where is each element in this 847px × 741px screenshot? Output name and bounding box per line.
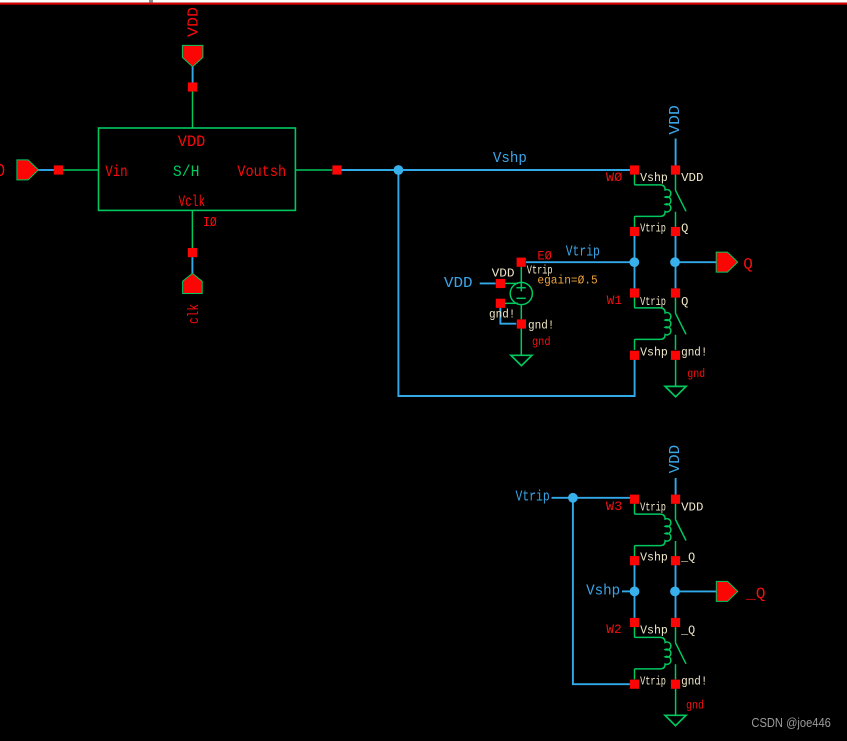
svg-text:Q: Q: [681, 221, 688, 235]
svg-text:Vshp: Vshp: [493, 150, 527, 167]
wire (blue, W3 _Q pin to W2 _Q pin): [675, 565, 677, 618]
pin square under VDD symbol: [188, 82, 197, 91]
wire (blue, Vtrip label to W3 pin): [552, 497, 631, 499]
wire (green, W2 gnd! pin to ground): [675, 689, 677, 715]
W0 pins: [630, 165, 639, 174]
wire (blue stub to clk symbol): [191, 257, 193, 273]
svg-text:gnd!: gnd!: [489, 308, 515, 322]
junction node _Q: [670, 587, 680, 597]
svg-text:VDD: VDD: [444, 275, 473, 292]
wire (blue stub, Vshp label to junction): [622, 590, 630, 592]
svg-text:IØ: IØ: [203, 216, 217, 231]
partial net label at left edge: [0, 165, 4, 176]
wire (green, E0 top pin into circle): [520, 267, 522, 292]
svg-text:_Q: _Q: [680, 624, 695, 638]
svg-text:_Q: _Q: [680, 551, 695, 565]
svg-text:VDD: VDD: [681, 500, 703, 514]
svg-text:gnd: gnd: [532, 335, 551, 349]
top window border band: [0, 0, 847, 3]
svg-text:_Q: _Q: [745, 585, 766, 603]
svg-text:VDD: VDD: [667, 445, 684, 474]
wire (green, E0 plus input stub): [505, 282, 518, 284]
wire (blue, Q junction to Q output pin): [680, 261, 717, 263]
relay W1 switch: [676, 298, 687, 350]
wire (blue, VDD to E0 plus pin): [480, 282, 496, 284]
wire (green, VDD pin to S/H box): [192, 91, 194, 128]
svg-text:gnd!: gnd!: [681, 675, 707, 689]
wire (blue stub from input pin): [38, 169, 54, 171]
VDD supply symbol (top): [182, 45, 203, 66]
svg-text:Voutsh: Voutsh: [237, 163, 286, 181]
minus sign bar: [516, 297, 525, 299]
wire (blue, VDD to W0): [675, 139, 677, 166]
output pin _Q symbol: [716, 581, 738, 601]
svg-text:Vshp: Vshp: [640, 346, 668, 360]
wire (green, W1 gnd! pin to ground): [675, 360, 677, 386]
svg-text:Vin: Vin: [105, 163, 128, 181]
svg-text:VDD: VDD: [492, 266, 515, 280]
clk supply symbol: [183, 273, 203, 293]
wire (blue feedback L: junction down, right, up to W1 Vshp pin): [398, 170, 634, 396]
input pin symbol: [17, 160, 39, 180]
wire (green, S/H box to clk pin): [191, 210, 193, 248]
svg-text:Vtrip: Vtrip: [640, 500, 666, 514]
svg-text:VDD: VDD: [667, 105, 684, 135]
W2 pins: [630, 618, 639, 627]
pin square at Voutsh: [332, 165, 341, 174]
svg-text:VDD: VDD: [681, 171, 703, 185]
svg-text:gnd: gnd: [687, 367, 705, 381]
svg-text:gnd: gnd: [686, 699, 704, 713]
vcvs E0: [505, 267, 532, 320]
ground symbol (W1): [665, 386, 686, 396]
svg-text:gnd!: gnd!: [681, 346, 707, 360]
wire (blue, W0 Q pin to W1 Q pin): [675, 236, 677, 288]
svg-text:gnd!: gnd!: [528, 318, 554, 332]
wire (green, input pin to S/H box): [63, 169, 99, 171]
svg-text:Vclk: Vclk: [179, 193, 206, 211]
wire (blue, W0 Vtrip pin to W1 Vtrip pin): [634, 236, 636, 288]
svg-text:Q: Q: [681, 295, 688, 309]
plus sign bar: [516, 287, 525, 289]
wire (blue, _Q junction to _Q output pin): [680, 590, 717, 592]
output pin Q symbol: [716, 252, 738, 272]
E0 pins: [517, 258, 526, 267]
ground symbol (W2): [665, 715, 686, 725]
pin square at Vin: [54, 165, 63, 174]
W1 pins: [630, 288, 639, 297]
relay W3 switch: [676, 504, 687, 556]
svg-text:W1: W1: [607, 294, 623, 308]
W3 pins: [630, 495, 639, 504]
E0 source circle: [510, 282, 532, 304]
svg-text:W3: W3: [606, 500, 623, 514]
junction node on Vshp net: [394, 165, 404, 175]
svg-text:VDD: VDD: [186, 7, 203, 37]
svg-text:WØ: WØ: [606, 171, 623, 185]
wire (blue left rail down to W2 Vtrip pin): [573, 498, 630, 684]
wire (blue, Vshp net horizontal): [342, 169, 630, 171]
svg-text:Vtrip: Vtrip: [640, 675, 666, 689]
svg-text:Vshp: Vshp: [640, 551, 668, 565]
svg-text:CSDN @joe446: CSDN @joe446: [751, 716, 831, 730]
svg-text:Vtrip: Vtrip: [640, 221, 666, 235]
S/H block I0: [99, 128, 296, 210]
wire (blue, E0 to Vtrip junction): [526, 261, 630, 263]
svg-text:clk: clk: [186, 304, 203, 324]
wire (green, E0 bottom pin to ground): [520, 329, 522, 356]
pin square above clk: [188, 248, 197, 257]
svg-text:Vtrip: Vtrip: [516, 488, 550, 505]
svg-text:Vshp: Vshp: [640, 171, 668, 185]
wire (green, E0 minus input stub): [505, 302, 518, 304]
svg-text:VDD: VDD: [178, 133, 206, 151]
svg-text:Vshp: Vshp: [586, 582, 620, 599]
svg-text:Vtrip: Vtrip: [566, 244, 600, 261]
svg-text:Vshp: Vshp: [640, 624, 668, 638]
junction node Q: [670, 257, 680, 267]
wire (blue, W3 Vshp pin to W2 Vshp pin): [634, 565, 636, 618]
wire (green, box output to pin square): [295, 169, 332, 171]
relay W3 coil: [635, 504, 671, 556]
relay W0 switch: [676, 175, 687, 227]
relay W2 switch: [676, 627, 687, 679]
svg-text:W2: W2: [606, 623, 622, 637]
junction node Vtrip (bottom): [568, 493, 578, 503]
relay W1 coil: [635, 298, 671, 350]
junction node Vtrip: [629, 257, 639, 267]
relay W2 coil: [635, 627, 671, 679]
wire (green, circle bottom to E0 bottom pin): [520, 304, 522, 319]
svg-text:Vtrip: Vtrip: [640, 295, 666, 309]
svg-text:Q: Q: [743, 255, 753, 273]
ground symbol (E0): [511, 355, 532, 365]
relay W0 coil: [635, 175, 671, 227]
junction node Vshp (bottom): [630, 587, 640, 597]
wire (blue L, E0 minus pin to bottom pin): [500, 308, 516, 324]
wire (blue stub under VDD symbol): [192, 67, 194, 83]
svg-text:S/H: S/H: [173, 163, 200, 181]
wire (blue, VDD to W3): [675, 478, 677, 495]
svg-text:egain=Ø.5: egain=Ø.5: [537, 274, 597, 288]
svg-text:EØ: EØ: [537, 249, 552, 263]
